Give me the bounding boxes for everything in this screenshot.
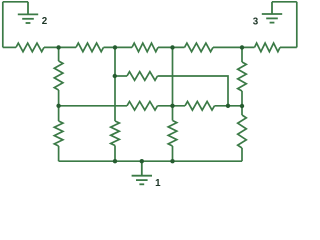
wire column B bottom xyxy=(114,146,116,162)
resistor R4 xyxy=(185,43,214,52)
wire column A middle xyxy=(58,90,60,106)
wire column C upper xyxy=(172,47,174,120)
wire column D lower stub xyxy=(241,106,243,115)
wire top-left horizontal xyxy=(3,1,28,3)
wire row1 segment b with drop xyxy=(158,76,229,106)
wire column B upper xyxy=(114,47,116,121)
node row2 junction D xyxy=(240,104,244,108)
wire left edge vertical xyxy=(2,2,4,48)
wire row2 segment b xyxy=(158,105,186,107)
node top bus junction B xyxy=(113,45,117,49)
wire row2 segment a xyxy=(59,105,127,107)
node top bus junction C xyxy=(170,45,174,49)
wire right edge vertical xyxy=(296,2,298,48)
ground 1 symbol xyxy=(132,161,152,184)
resistor R1 xyxy=(16,43,44,52)
node bottom bus ground junction xyxy=(140,159,144,163)
svg-text:3: 3 xyxy=(253,17,259,28)
resistor R6 xyxy=(54,61,63,90)
wire row2 segment c xyxy=(215,105,243,107)
node row2 junction C xyxy=(170,104,174,108)
node bottom bus junction B xyxy=(113,159,117,163)
wire top bus segment e xyxy=(213,46,255,48)
wire top bus segment c xyxy=(104,46,133,48)
node bottom bus junction C xyxy=(170,159,174,163)
wire column C bottom xyxy=(172,146,174,161)
circuit schematic: resistor network with three grounds xyxy=(0,0,300,190)
resistor R2 xyxy=(76,43,104,52)
ground 2 symbol xyxy=(18,2,38,23)
wire column A bottom xyxy=(58,146,60,161)
svg-text:1: 1 xyxy=(155,178,161,189)
wire top bus segment d xyxy=(158,46,185,48)
resistor R3 xyxy=(132,43,158,52)
svg-text:2: 2 xyxy=(42,16,48,27)
wire column A lower stub xyxy=(58,106,60,121)
ground 3 symbol xyxy=(262,2,282,23)
resistor R11 xyxy=(238,115,247,148)
resistor R7 xyxy=(54,121,63,146)
node row2 junction A xyxy=(56,104,60,108)
wire bottom bus xyxy=(59,160,242,162)
wire top bus segment b xyxy=(44,46,76,48)
resistor R12 xyxy=(127,72,158,81)
resistor R14 xyxy=(185,102,215,111)
wire column D middle xyxy=(241,91,243,106)
resistor R8 xyxy=(111,121,120,146)
wire column A upper stub xyxy=(58,47,60,61)
wire top bus segment f xyxy=(280,46,297,48)
node row1 junction xyxy=(113,74,117,78)
wire column D bottom xyxy=(241,148,243,161)
resistor R13 xyxy=(127,102,158,111)
wire column D upper stub xyxy=(241,47,243,62)
resistor R10 xyxy=(238,62,247,91)
wire top bus segment a xyxy=(3,46,16,48)
wire top-right horizontal xyxy=(272,1,297,3)
node row2 junction drop xyxy=(226,104,230,108)
resistor R5 xyxy=(255,43,281,52)
node top bus junction D xyxy=(240,45,244,49)
wire row1 segment a xyxy=(115,75,127,77)
resistor R9 xyxy=(168,121,177,147)
node top bus junction A xyxy=(56,45,60,49)
